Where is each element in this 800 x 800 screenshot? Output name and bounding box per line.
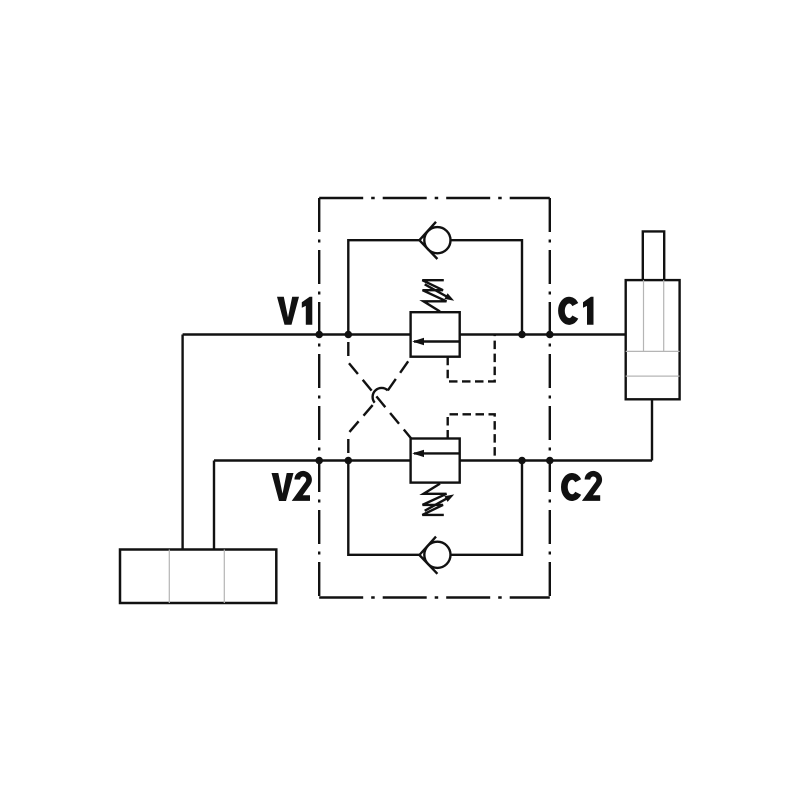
port label C1 (561, 297, 593, 325)
wire: main line V1-C1 left segment (183, 333, 411, 335)
cylinder piston thin lines (626, 351, 680, 376)
pilot line D1 (dashed, from V1 junction to valve 2) (348, 335, 411, 439)
cylinder rod (643, 231, 664, 280)
cylinder body (626, 280, 680, 399)
cylinder rod inner thin lines (644, 280, 664, 351)
wire: V1 port line down to directional valve (181, 335, 183, 550)
wire: main line V2-C2 right segment (460, 459, 652, 461)
counterbalance valve 2 flow arrow (points left) (412, 450, 460, 457)
port label C2 (564, 474, 600, 498)
directional control valve block (120, 550, 276, 604)
port label V2 (272, 473, 310, 501)
check valve CV1 seat (419, 222, 437, 259)
counterbalance valve 2 adjustment arrow (425, 494, 455, 510)
pilot line D2 (dashed, from V2 junction to valve 1) lower part (348, 403, 374, 461)
check valve CV2 ball circle (424, 542, 450, 568)
wire: check valve loop bottom (348, 461, 522, 555)
port label V1 (277, 297, 312, 325)
drain pilot of valve 2 (dashed) (448, 414, 495, 460)
wire: main line V1-C1 right segment to cylinder (460, 333, 626, 335)
wire: main line V2-C2 left segment (214, 459, 411, 461)
counterbalance valve 1 spring (422, 280, 446, 311)
counterbalance valve 1 adjustment arrow (425, 284, 455, 300)
drain pilot of valve 1 (dashed) (448, 335, 495, 381)
counterbalance valve 1 flow arrow (points left) (412, 338, 460, 345)
check valve CV1 ball circle (424, 227, 450, 253)
valve assembly enclosure (dash-dot boundary box) (319, 198, 550, 598)
wire: check valve loop top (348, 240, 522, 334)
counterbalance valve 2 spring (422, 484, 446, 515)
pilot line D2 upper part (388, 357, 411, 390)
junction dots on main line 1 (315, 331, 553, 339)
check valve CV2 seat (419, 537, 437, 574)
directional valve section dividers (169, 550, 224, 604)
junction dots on main line 2 (315, 457, 553, 465)
wire: V2 port line down to directional valve (213, 461, 215, 550)
wire: C2 line up to cylinder bottom (651, 399, 653, 460)
counterbalance valve 2 body box (411, 439, 460, 483)
counterbalance valve 1 body box (411, 312, 460, 357)
pilot line D2 crossover hop arc (373, 388, 388, 403)
